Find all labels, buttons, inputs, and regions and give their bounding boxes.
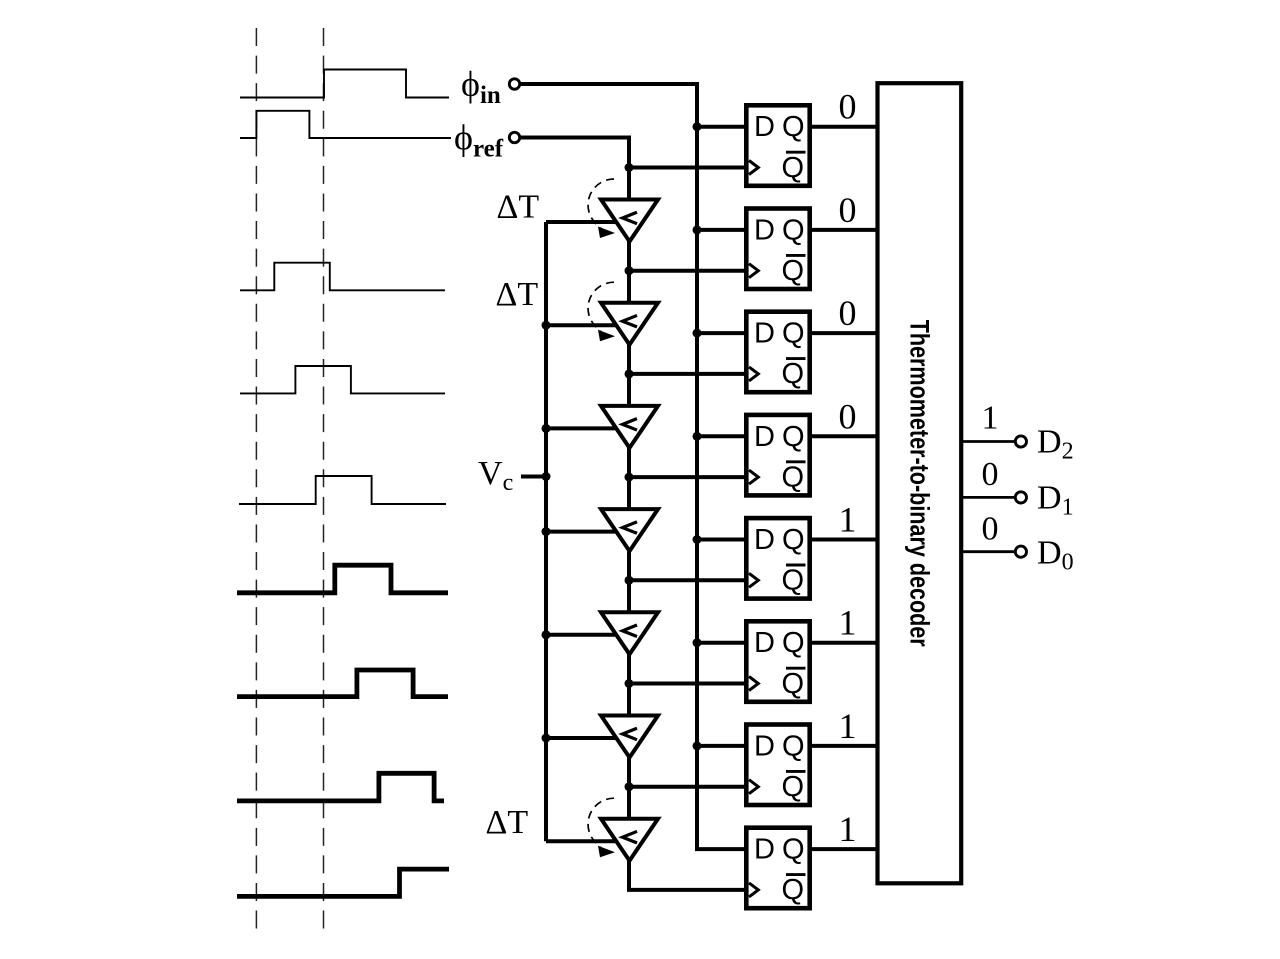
wire Vc distribution bus — [544, 222, 548, 841]
wire delay chain segment 6 — [627, 757, 631, 819]
wire Vc control to delay cell 4 — [546, 530, 618, 534]
node: D-bus junction FF4 — [693, 432, 702, 441]
svg-text:1: 1 — [839, 603, 857, 643]
svg-text:0: 0 — [839, 190, 857, 230]
wire D bus to FF5 D input — [697, 538, 748, 542]
decoder block: thermometer-to-binary — [878, 83, 962, 883]
wire Vc control to delay cell 1 — [546, 220, 618, 224]
node: D-bus junction FF7 — [693, 741, 702, 750]
svg-text:Q: Q — [782, 214, 805, 246]
svg-text:Q: Q — [782, 874, 805, 906]
wire D bus to FF3 D input — [697, 331, 748, 335]
svg-text:0: 0 — [839, 87, 857, 127]
svg-text:1: 1 — [839, 706, 857, 746]
svg-text:Q: Q — [782, 255, 805, 287]
node: delay-chain tap 2 junction — [625, 266, 634, 275]
svg-text:D: D — [754, 730, 775, 762]
svg-text:ΔT: ΔT — [496, 276, 539, 313]
wire delay chain segment 5 — [627, 653, 631, 715]
wire clock tap 6 to FF6 — [629, 682, 748, 686]
wire FF4 Q output to decoder — [810, 434, 878, 438]
svg-text:Thermometer-to-binary decoder: Thermometer-to-binary decoder — [904, 320, 934, 647]
wire Vc label to bus — [521, 475, 546, 479]
wire FF5 Q output to decoder — [810, 538, 878, 542]
wire phi_in to D bus (vertical bus x=697) — [520, 84, 748, 849]
node: D-bus junction FF1 — [693, 122, 702, 131]
delay buffer U4 (voltage-controlled delay cell) — [601, 509, 658, 551]
wire delay chain segment 2 — [627, 344, 631, 406]
svg-text:Q: Q — [782, 421, 805, 453]
D flip-flop FF1 — [746, 105, 809, 186]
D flip-flop FF4 — [746, 415, 809, 496]
waveform phi_in pulse — [240, 70, 449, 98]
wire decoder output D2 — [961, 440, 1015, 443]
wire FF6 Q output to decoder — [810, 641, 878, 645]
node: delay-chain tap 6 junction — [625, 679, 634, 688]
wire delay chain segment 1 — [627, 241, 631, 303]
dashed time-reference line (phi_ref rising edge) — [255, 28, 257, 929]
svg-text:ΔT: ΔT — [497, 188, 540, 225]
waveform delayed tap 2 — [240, 366, 445, 393]
delay buffer U2 (voltage-controlled delay cell) — [601, 303, 658, 345]
wire FF8 Q output to decoder — [810, 847, 878, 851]
terminal D2 — [1015, 436, 1026, 447]
wire D bus to FF1 D input — [697, 125, 748, 129]
node: D-bus junction FF3 — [693, 329, 702, 338]
tuning arrow (dashed arc) on delay cell 1 — [588, 179, 615, 238]
svg-text:Q: Q — [782, 730, 805, 762]
delay buffer U7 (voltage-controlled delay cell) — [601, 819, 658, 861]
wire clock tap 4 to FF4 — [629, 475, 748, 479]
svg-text:D: D — [754, 627, 775, 659]
svg-text:Q: Q — [782, 771, 805, 803]
wire decoder output D0 — [961, 550, 1015, 553]
svg-text:D: D — [754, 111, 775, 143]
node: Vc bus junction 2 — [542, 321, 551, 330]
node: delay-chain tap 1 junction — [625, 163, 634, 172]
svg-text:1: 1 — [839, 500, 857, 540]
svg-text:Q: Q — [782, 668, 805, 700]
waveform delayed tap 4 (bold) — [237, 565, 448, 593]
wire D bus to FF6 D input — [697, 641, 748, 645]
node: delay-chain tap 7 junction — [625, 782, 634, 791]
wire clock tap 2 to FF2 — [629, 269, 748, 273]
waveform phi_ref pulse — [240, 111, 451, 138]
waveform delayed tap 7 (bold) — [237, 869, 449, 896]
node: D-bus junction FF2 — [693, 225, 702, 234]
wire delay chain segment 3 — [627, 447, 631, 509]
wire Vc control to delay cell 6 — [546, 736, 618, 740]
node: Vc bus junction 5 — [542, 630, 551, 639]
svg-text:Q: Q — [782, 524, 805, 556]
svg-text:0: 0 — [982, 456, 999, 493]
wire Vc control to delay cell 2 — [546, 323, 618, 327]
node: D-bus junction FF6 — [693, 638, 702, 647]
svg-text:0: 0 — [982, 511, 999, 548]
wire FF2 Q output to decoder — [810, 228, 878, 232]
node: D-bus junction FF5 — [693, 535, 702, 544]
terminal D1 — [1015, 492, 1026, 503]
node: Vc bus junction 3 — [542, 424, 551, 433]
wire clock tap 1 to FF1 — [629, 166, 748, 170]
svg-text:1: 1 — [839, 809, 857, 849]
svg-text:D: D — [754, 318, 775, 350]
wire clock tap 5 to FF5 — [629, 578, 748, 582]
wire Vc control to delay cell 5 — [546, 633, 618, 637]
svg-text:1: 1 — [982, 400, 999, 437]
D flip-flop FF5 — [746, 518, 809, 599]
D flip-flop FF8 — [746, 828, 809, 909]
terminal phi_in — [509, 79, 519, 89]
tuning arrow (dashed arc) on delay cell 7 — [588, 798, 615, 857]
svg-text:D: D — [754, 421, 775, 453]
wire delay chain segment 4 — [627, 550, 631, 612]
delay buffer U6 (voltage-controlled delay cell) — [601, 716, 658, 758]
tuning arrow (dashed arc) on delay cell 2 — [588, 282, 615, 341]
delay buffer U1 (voltage-controlled delay cell) — [601, 200, 658, 242]
svg-text:Q: Q — [782, 318, 805, 350]
dashed time-reference line (phi_in rising edge) — [323, 28, 325, 929]
wire clock tap 3 to FF3 — [629, 372, 748, 376]
wire Vc control to delay cell 3 — [546, 426, 618, 430]
node: delay-chain tap 5 junction — [625, 576, 634, 585]
wire FF7 Q output to decoder — [810, 744, 878, 748]
D flip-flop FF7 — [746, 725, 809, 806]
waveform delayed tap 5 (bold) — [237, 670, 448, 697]
wire phi_ref to delay chain — [520, 138, 629, 200]
svg-text:Q: Q — [782, 565, 805, 597]
D flip-flop FF3 — [746, 312, 809, 393]
svg-text:0: 0 — [839, 293, 857, 333]
terminal phi_ref — [509, 132, 519, 142]
node: Vc feed junction — [542, 472, 551, 481]
D flip-flop FF6 — [746, 621, 809, 702]
waveform delayed tap 1 — [240, 263, 445, 291]
wire D bus to FF2 D input — [697, 228, 748, 232]
svg-text:0: 0 — [839, 396, 857, 436]
wire FF1 Q output to decoder — [810, 125, 878, 129]
waveform delayed tap 6 (bold) — [237, 773, 444, 801]
wire decoder output D1 — [961, 496, 1015, 499]
svg-text:Q: Q — [782, 627, 805, 659]
wire delay chain output to FF8 clock — [629, 860, 748, 890]
wire D bus to FF4 D input — [697, 434, 748, 438]
svg-text:ΔT: ΔT — [486, 804, 529, 841]
svg-text:D: D — [754, 214, 775, 246]
wire clock tap 7 to FF7 — [629, 785, 748, 789]
wire D bus to FF7 D input — [697, 744, 748, 748]
node: delay-chain tap 3 junction — [625, 369, 634, 378]
D flip-flop FF2 — [746, 209, 809, 290]
wire Vc control to delay cell 7 — [546, 839, 618, 843]
svg-text:Q: Q — [782, 834, 805, 866]
node: delay-chain tap 4 junction — [625, 473, 634, 482]
svg-text:Q: Q — [782, 358, 805, 390]
delay buffer U3 (voltage-controlled delay cell) — [601, 406, 658, 448]
node: Vc bus junction 4 — [542, 527, 551, 536]
waveform delayed tap 3 — [239, 476, 446, 504]
svg-text:Q: Q — [782, 152, 805, 184]
node: Vc bus junction 6 — [542, 734, 551, 743]
terminal D0 — [1015, 546, 1026, 557]
svg-text:Q: Q — [782, 461, 805, 493]
svg-text:Q: Q — [782, 111, 805, 143]
svg-text:D: D — [754, 834, 775, 866]
wire FF3 Q output to decoder — [810, 331, 878, 335]
svg-text:D: D — [754, 524, 775, 556]
delay buffer U5 (voltage-controlled delay cell) — [601, 612, 658, 654]
